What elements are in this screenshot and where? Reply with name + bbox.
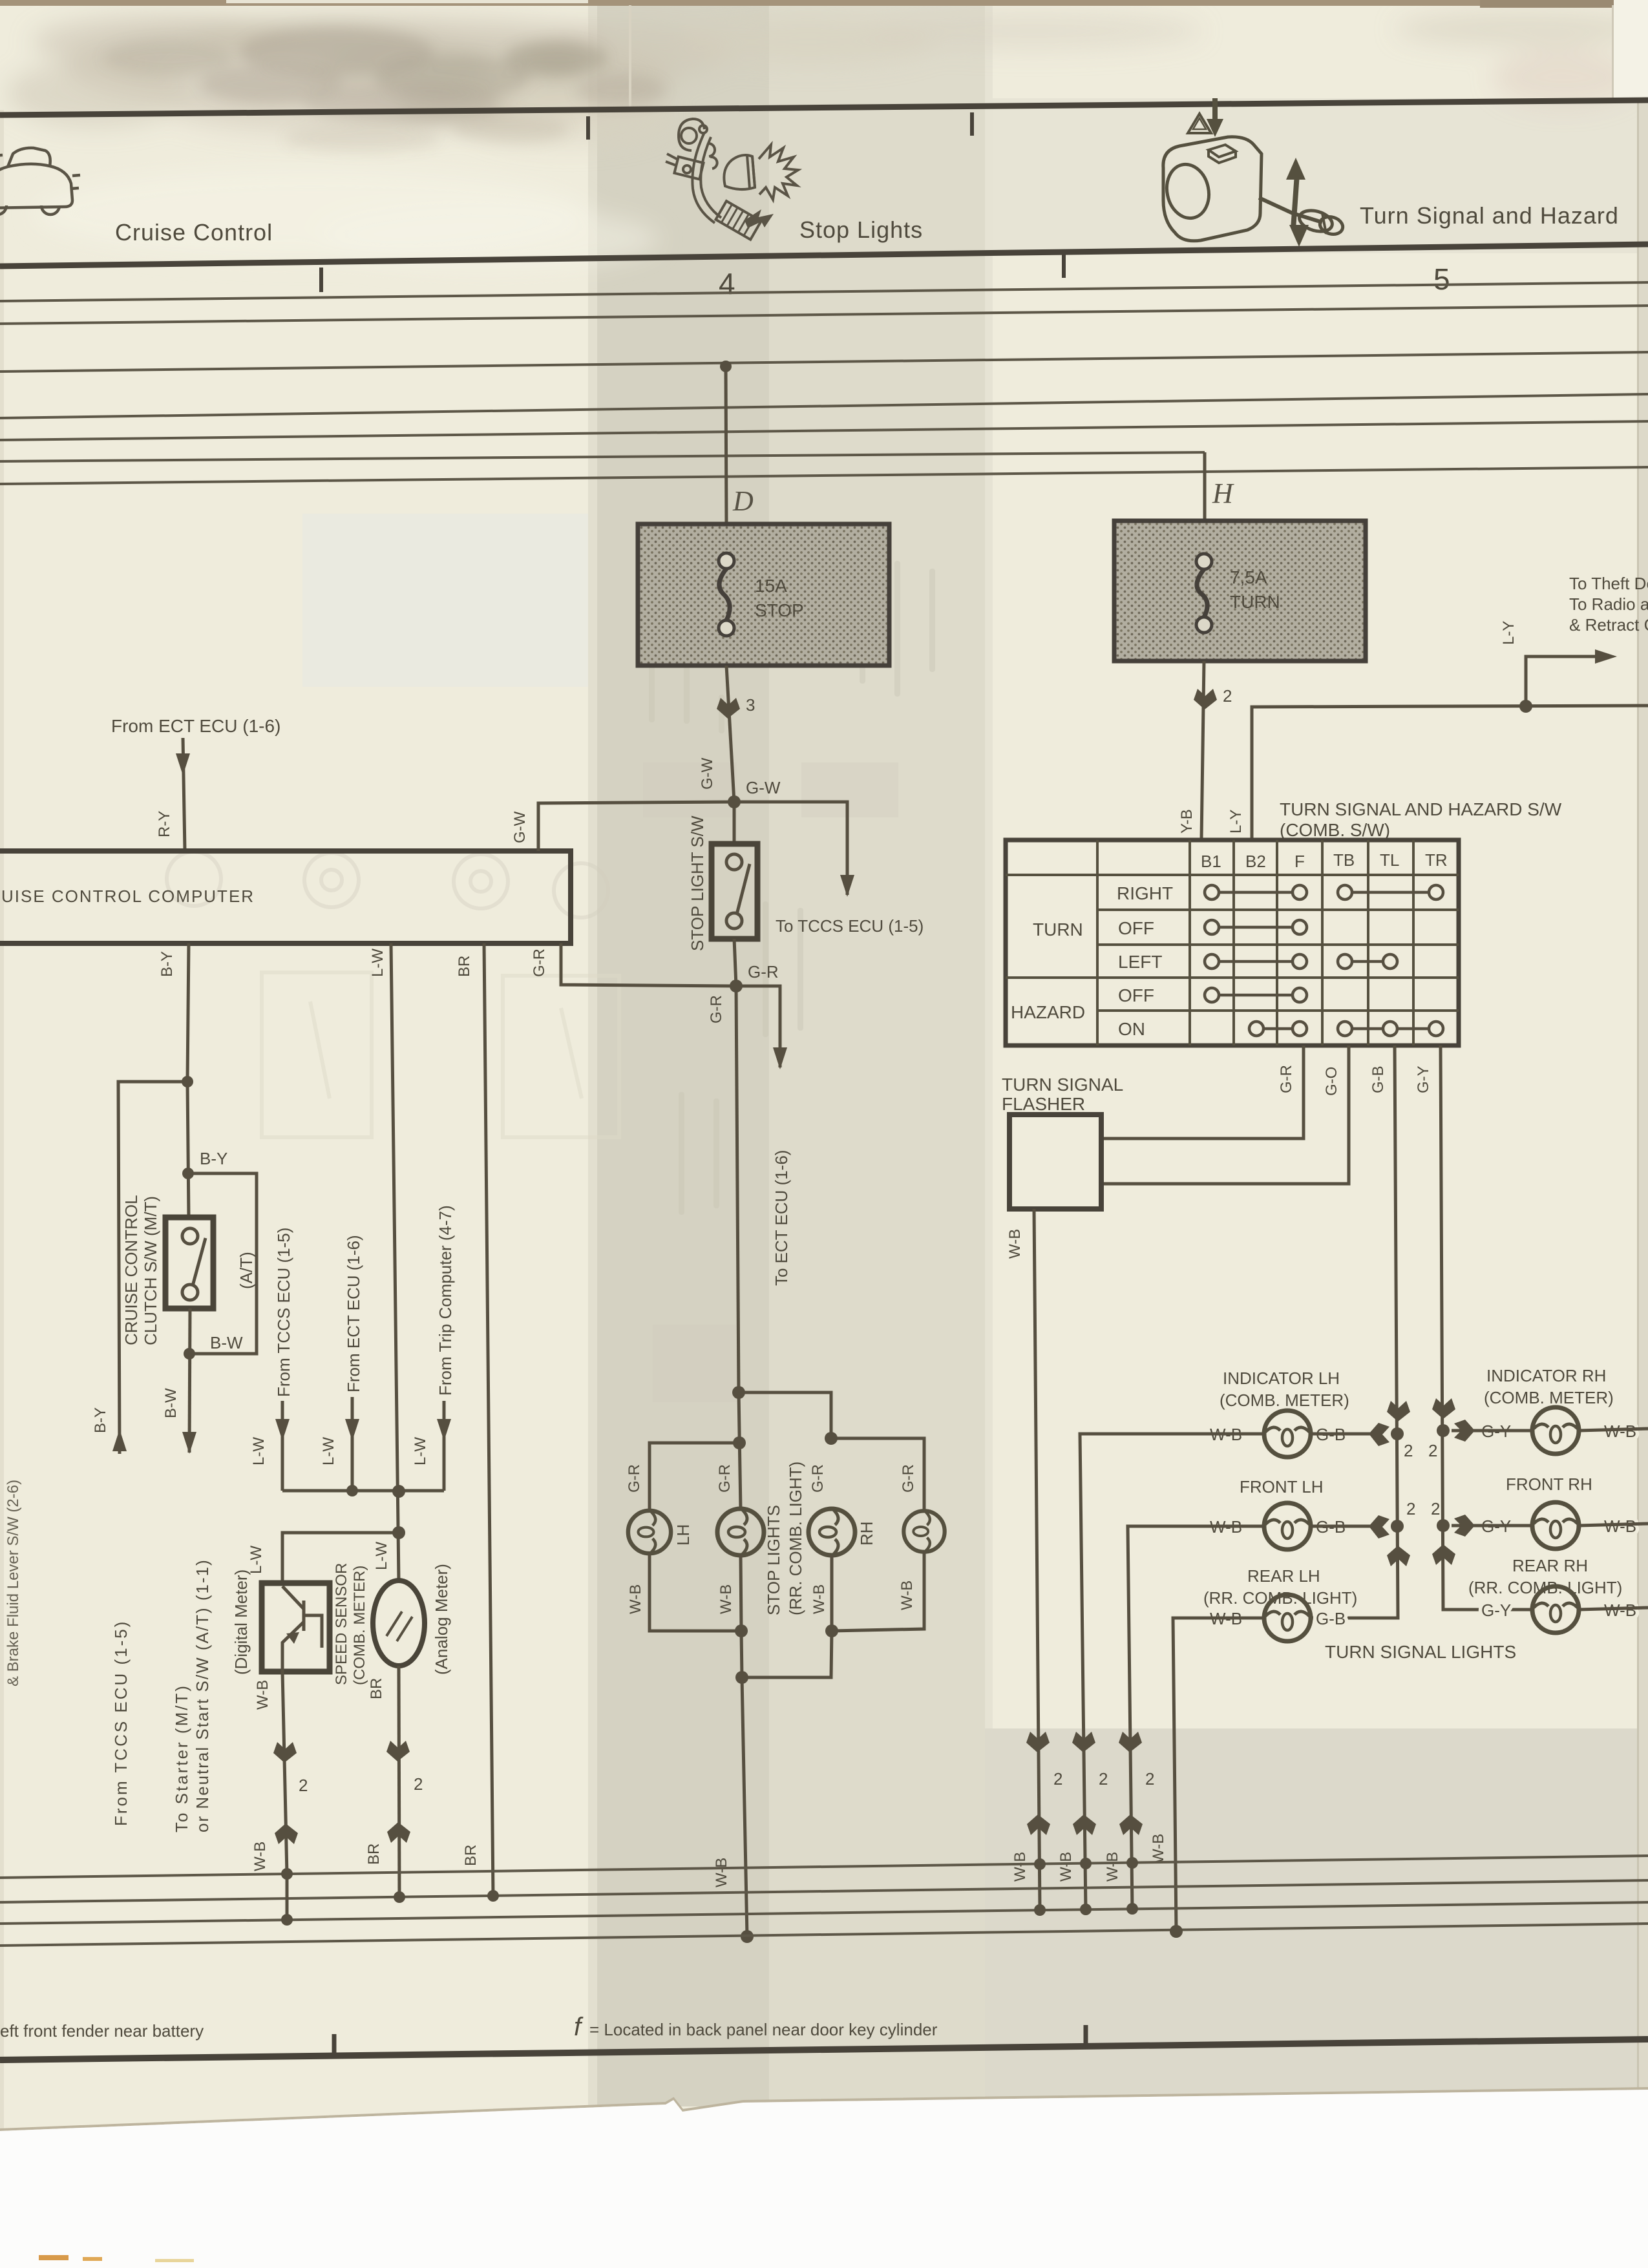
svg-text:G-R: G-R xyxy=(531,949,548,977)
arrow left indicator LH xyxy=(1369,1423,1389,1446)
svg-text:STOP: STOP xyxy=(755,600,804,620)
fuse 15A STOP box xyxy=(638,524,889,666)
svg-text:R-Y: R-Y xyxy=(156,811,173,837)
middle scan band light half xyxy=(769,0,985,2106)
svg-text:CLUTCH S/W (M/T): CLUTCH S/W (M/T) xyxy=(141,1196,160,1345)
node G-Y front xyxy=(1437,1519,1450,1532)
wire L-W feeder1 xyxy=(281,1401,284,1491)
svg-text:TURN SIGNAL LIGHTS: TURN SIGNAL LIGHTS xyxy=(1325,1642,1516,1662)
svg-text:B-W: B-W xyxy=(210,1333,243,1352)
wire L-W from computer down xyxy=(391,943,399,1581)
svg-text:RH: RH xyxy=(857,1521,876,1546)
clutch switch contact bottom xyxy=(182,1285,198,1300)
svg-text:eft front fender near battery: eft front fender near battery xyxy=(0,2021,204,2041)
ground bus W-B 1 xyxy=(0,1856,1648,1878)
svg-text:To Theft De: To Theft De xyxy=(1569,574,1648,593)
svg-text:B-Y: B-Y xyxy=(158,951,176,977)
svg-text:or Neutral Start S/W (A/T) (1-: or Neutral Start S/W (A/T) (1-1) xyxy=(193,1559,212,1832)
arrow down to ECT xyxy=(773,1047,787,1069)
svg-text:2: 2 xyxy=(299,1776,308,1795)
svg-text:2: 2 xyxy=(1053,1769,1062,1789)
svg-text:W-B: W-B xyxy=(1150,1834,1167,1864)
svg-text:G-B: G-B xyxy=(1316,1609,1346,1628)
tick below second line left xyxy=(319,268,323,292)
wire BR from computer down xyxy=(484,943,493,1896)
connector chevron 2 xyxy=(1194,689,1217,709)
combination switch table frame xyxy=(1006,840,1459,1045)
svg-text:FRONT RH: FRONT RH xyxy=(1506,1475,1592,1494)
svg-text:BR: BR xyxy=(462,1845,480,1866)
svg-text:(Analog Meter): (Analog Meter) xyxy=(432,1564,451,1675)
ghost block bleed in band xyxy=(643,762,898,1402)
wire L-W feeder3 xyxy=(443,1401,446,1491)
svg-text:4: 4 xyxy=(719,267,735,300)
svg-text:REAR RH: REAR RH xyxy=(1512,1556,1588,1575)
stop bulb LH xyxy=(628,1511,671,1553)
middle scan band dark half xyxy=(596,0,769,2106)
svg-text:L-W: L-W xyxy=(320,1437,337,1465)
connector chevrons W-B flasher wire xyxy=(1026,1732,1050,1835)
table horizontal dividers xyxy=(1006,875,1459,1011)
bottom ground buses and frame xyxy=(0,1856,1648,2268)
svg-text:2: 2 xyxy=(1099,1769,1108,1789)
analog meter slashes xyxy=(386,1612,412,1641)
wire B-Y from computer xyxy=(187,943,189,1082)
wire L-W to digital meter xyxy=(282,1533,399,1584)
svg-text:TURN: TURN xyxy=(1230,592,1280,612)
node bus to fuse D xyxy=(720,361,732,372)
node W-B indicator on bus1 xyxy=(1080,1858,1092,1869)
bottom frame line xyxy=(0,2039,1648,2060)
arrow right indicator RH xyxy=(1454,1420,1475,1442)
ground bus W-B 4 xyxy=(0,1924,1648,1946)
svg-text:7,5A: 7,5A xyxy=(1230,567,1267,587)
svg-text:FRONT LH: FRONT LH xyxy=(1240,1477,1324,1496)
wire indicator LH W-B xyxy=(1080,1434,1264,1911)
wire front RH to connector xyxy=(1452,1524,1532,1528)
rear LH bulb xyxy=(1264,1595,1311,1641)
fuse 7,5A TURN box xyxy=(1114,521,1366,661)
cruise control section xyxy=(0,716,736,1897)
wire to node E xyxy=(741,1631,742,1677)
cruise control computer box xyxy=(0,851,571,943)
wire switch to G-R node xyxy=(734,939,736,986)
wire L-W feeder2 xyxy=(351,1397,354,1491)
stop lights section xyxy=(626,361,945,1943)
wire bus to fuse H xyxy=(1203,452,1207,521)
svg-text:D: D xyxy=(732,485,754,517)
wire G-W computer to switch xyxy=(538,802,734,851)
svg-text:TL: TL xyxy=(1380,850,1399,870)
node W-B E xyxy=(735,1671,748,1684)
second frame line xyxy=(0,244,1648,266)
wire G-R main down to bulbs xyxy=(736,986,739,1392)
svg-text:HAZARD: HAZARD xyxy=(1011,1002,1085,1022)
top margin stains xyxy=(6,11,1648,145)
svg-text:INDICATOR LH: INDICATOR LH xyxy=(1223,1369,1340,1388)
bus line 7 xyxy=(0,467,1648,484)
bus line 3 (feeds fuse D) xyxy=(0,352,1648,372)
svg-text:& Retract C: & Retract C xyxy=(1569,615,1648,635)
bus line 5 xyxy=(0,421,1648,440)
wire indicator RH to connector xyxy=(1452,1429,1532,1433)
node G-B indicator xyxy=(1391,1427,1404,1440)
svg-text:UISE CONTROL COMPUTER: UISE CONTROL COMPUTER xyxy=(1,887,255,906)
analog meter oval xyxy=(373,1580,425,1666)
node B-Y at clutch switch xyxy=(182,1168,194,1179)
dark stain cores xyxy=(103,27,666,153)
svg-text:To Radio an: To Radio an xyxy=(1569,594,1648,614)
tick above bottom line right xyxy=(1084,2025,1088,2046)
svg-text:LEFT: LEFT xyxy=(1118,952,1162,972)
svg-text:G-B: G-B xyxy=(1369,1066,1387,1093)
svg-text:TURN SIGNAL: TURN SIGNAL xyxy=(1002,1075,1123,1095)
bus line 1 xyxy=(0,282,1648,301)
node L-W feeder2 join xyxy=(346,1485,358,1496)
node G-B front xyxy=(1391,1520,1404,1533)
node W-B digital on bus3 xyxy=(281,1914,293,1926)
svg-text:(Digital Meter): (Digital Meter) xyxy=(231,1570,251,1675)
arrow down on B-W xyxy=(182,1432,196,1454)
svg-text:= Located in back panel near d: = Located in back panel near door key cy… xyxy=(589,2020,938,2039)
svg-text:G-R: G-R xyxy=(1278,1065,1295,1093)
svg-text:G-R: G-R xyxy=(809,1464,827,1493)
wire G-R computer return xyxy=(561,943,736,986)
svg-text:(A/T): (A/T) xyxy=(237,1252,256,1289)
light burst xyxy=(759,145,798,200)
lever double arrow xyxy=(1286,158,1309,247)
arrow down feeder3 xyxy=(437,1419,451,1441)
svg-text:L-W: L-W xyxy=(412,1437,429,1465)
top right header tone xyxy=(985,98,1648,253)
fold crease top middle xyxy=(629,5,631,112)
arrow into switch top xyxy=(1207,98,1223,137)
contacts row LEFT xyxy=(1205,954,1397,969)
svg-text:RIGHT: RIGHT xyxy=(1117,883,1173,903)
stop switch contact top xyxy=(726,854,742,870)
fold crease top right xyxy=(1612,5,1614,102)
svg-text:5: 5 xyxy=(1433,262,1450,296)
contacts row OFF xyxy=(1205,920,1307,934)
svg-text:2: 2 xyxy=(1428,1441,1437,1460)
node W-B F xyxy=(825,1624,838,1637)
arrow down to TCCS xyxy=(840,875,854,897)
clutch switch contact top xyxy=(182,1228,198,1244)
wire B-Y into clutch switch xyxy=(187,1082,189,1217)
svg-text:BR: BR xyxy=(368,1678,385,1699)
svg-text:G-R: G-R xyxy=(748,962,779,982)
node G-R xyxy=(730,980,743,992)
svg-text:To TCCS ECU (1-5): To TCCS ECU (1-5) xyxy=(776,916,924,936)
bulb dome xyxy=(724,155,755,189)
arrow down on R-Y xyxy=(176,753,190,775)
L-W feeder 3 from Trip Computer xyxy=(412,1205,455,1491)
wire G-Y table down xyxy=(1441,1045,1532,1610)
svg-text:FLASHER: FLASHER xyxy=(1002,1094,1085,1114)
contacts row ON xyxy=(1249,1022,1443,1036)
node W-B front on bus3 xyxy=(1126,1903,1138,1915)
wire W-B digital bus link xyxy=(286,1874,289,1920)
wire W-B from flasher xyxy=(1034,1209,1040,1911)
contacts row OFF hazard xyxy=(1205,988,1307,1002)
node W-B indicator on bus3 xyxy=(1080,1904,1092,1915)
bright patches under header xyxy=(32,168,659,271)
pedal press arrow xyxy=(745,209,774,228)
svg-text:G-W: G-W xyxy=(746,778,781,797)
ground bus W-B 3 xyxy=(0,1902,1648,1924)
svg-text:W-B: W-B xyxy=(627,1584,644,1614)
wire L-Y to table xyxy=(1252,706,1648,840)
svg-text:OFF: OFF xyxy=(1118,918,1154,938)
front LH bulb xyxy=(1264,1503,1311,1549)
turn signal switch icon xyxy=(1162,137,1345,241)
svg-text:G-R: G-R xyxy=(626,1464,643,1493)
wire W-B main to ground bus xyxy=(742,1677,747,1937)
contacts row RIGHT xyxy=(1205,885,1443,899)
wire G-O table to flasher xyxy=(1103,1045,1349,1184)
svg-text:2: 2 xyxy=(1404,1441,1413,1460)
connector chevrons W-B front wire xyxy=(1119,1732,1143,1835)
node W-B flasher on bus1 xyxy=(1034,1858,1046,1870)
svg-text:(COMB. S/W): (COMB. S/W) xyxy=(1280,820,1390,840)
wire G-W into stop light switch xyxy=(733,802,736,845)
stop switch contact bottom xyxy=(726,913,742,929)
wire G-W branch to TCCS xyxy=(734,802,847,895)
tick divider cruise/stop xyxy=(586,116,590,140)
transistor symbol xyxy=(282,1586,322,1672)
svg-text:2: 2 xyxy=(414,1774,423,1794)
top edge brown strip xyxy=(0,0,1648,6)
svg-text:2: 2 xyxy=(1431,1499,1440,1518)
top power bus lines xyxy=(0,282,1648,484)
svg-text:TURN: TURN xyxy=(1033,919,1083,940)
wire bulb4 return xyxy=(832,1551,924,1631)
wire to bulb 1 xyxy=(650,1443,739,1511)
svg-text:(COMB. METER): (COMB. METER) xyxy=(1220,1391,1349,1410)
bus line 6 (feeds fuse H) xyxy=(0,452,1205,461)
svg-text:W-B: W-B xyxy=(1104,1852,1121,1882)
wire B-W to starter xyxy=(189,1308,190,1453)
svg-text:3: 3 xyxy=(746,695,755,715)
wire front LH to connector xyxy=(1311,1525,1370,1528)
svg-text:(COMB. METER): (COMB. METER) xyxy=(351,1566,368,1685)
node right pair C xyxy=(825,1432,838,1445)
node W-B rear on bus4 xyxy=(1170,1925,1183,1938)
svg-text:B-Y: B-Y xyxy=(200,1149,227,1168)
connector chevrons W-B indicator wire xyxy=(1072,1732,1096,1835)
svg-text:G-R: G-R xyxy=(708,995,725,1024)
stop bulb RH xyxy=(808,1509,855,1555)
svg-text:TB: TB xyxy=(1333,850,1355,870)
transistor emitter arrow xyxy=(286,1632,299,1644)
wire rear RH W-B xyxy=(1579,1608,1648,1610)
svg-text:TURN SIGNAL AND HAZARD S/W: TURN SIGNAL AND HAZARD S/W xyxy=(1280,799,1562,819)
node B-Y branch xyxy=(182,1076,193,1087)
tick divider stop/turn xyxy=(970,112,974,136)
svg-text:B2: B2 xyxy=(1245,852,1266,871)
node L-W main join xyxy=(392,1485,405,1498)
svg-text:2: 2 xyxy=(1223,686,1232,706)
svg-text:W-B: W-B xyxy=(898,1580,916,1610)
svg-text:W-B: W-B xyxy=(810,1584,828,1614)
stop bulb 4 xyxy=(903,1511,944,1551)
stop light switch box xyxy=(712,844,757,939)
connector chevrons BR xyxy=(386,1741,410,1843)
svg-text:W-B: W-B xyxy=(1057,1852,1075,1882)
connector chevron 3 xyxy=(717,698,740,719)
arrow up on left B-Y leg xyxy=(112,1429,127,1451)
svg-text:From Trip Computer (4-7): From Trip Computer (4-7) xyxy=(436,1205,455,1396)
node BR computer on bus2 xyxy=(487,1890,499,1902)
wire bus to fuse D xyxy=(726,366,726,525)
wire G-R branch to ECT xyxy=(736,986,780,1067)
svg-text:L-W: L-W xyxy=(250,1437,268,1465)
node G-W xyxy=(728,795,741,808)
fuse element TURN xyxy=(1196,554,1212,633)
svg-text:L-W: L-W xyxy=(373,1542,390,1570)
clutch switch blade xyxy=(193,1238,206,1286)
wire front LH W-B xyxy=(1128,1526,1264,1911)
svg-text:ON: ON xyxy=(1118,1019,1145,1039)
wire indicator RH W-B xyxy=(1579,1429,1648,1431)
wire fuse H output Y-B xyxy=(1201,661,1204,840)
node L-W speed sensor tee xyxy=(392,1526,405,1539)
wire A/T bypass xyxy=(188,1173,257,1354)
speed sensor transistor box (digital meter) xyxy=(262,1583,330,1672)
node W-B flasher on bus3 xyxy=(1034,1904,1046,1916)
wire bulb1 return xyxy=(650,1553,741,1631)
connector chevrons G-Y vertical xyxy=(1432,1398,1455,1565)
svg-text:W-B: W-B xyxy=(1011,1852,1029,1882)
arrow right front RH xyxy=(1454,1515,1475,1537)
ghost bulbs bleed-through inside computer xyxy=(167,852,608,918)
node left pair B xyxy=(733,1436,746,1449)
ghost switch bleed below computer xyxy=(262,972,619,1137)
table column headers xyxy=(1201,850,1448,871)
svg-text:STOP LIGHTS: STOP LIGHTS xyxy=(764,1505,783,1615)
svg-text:H: H xyxy=(1212,478,1234,509)
stop bulb 2 xyxy=(717,1509,764,1555)
svg-text:To Starter (M/T): To Starter (M/T) xyxy=(172,1684,191,1832)
L-W feeder 2 from ECT xyxy=(320,1235,363,1491)
left page edge shade xyxy=(0,110,4,2132)
svg-text:(COMB. METER): (COMB. METER) xyxy=(1484,1388,1614,1407)
svg-text:To ECT ECU (1-6): To ECT ECU (1-6) xyxy=(772,1150,791,1286)
node G-Y indicator xyxy=(1437,1424,1450,1437)
svg-text:INDICATOR RH: INDICATOR RH xyxy=(1486,1366,1606,1385)
top frame line xyxy=(0,100,1648,115)
svg-text:G-Y: G-Y xyxy=(1415,1066,1432,1093)
svg-text:From TCCS ECU (1-5): From TCCS ECU (1-5) xyxy=(111,1620,131,1826)
arrow left front LH xyxy=(1369,1515,1389,1538)
svg-text:G-W: G-W xyxy=(511,811,529,843)
svg-text:L-Y: L-Y xyxy=(1227,810,1245,834)
svg-text:W-B: W-B xyxy=(717,1584,735,1614)
bleed-through blue-grey patch xyxy=(302,514,781,687)
svg-text:(RR. COMB. LIGHT): (RR. COMB. LIGHT) xyxy=(786,1462,805,1615)
connector chevrons G-B vertical xyxy=(1387,1401,1410,1566)
wire BR from analog meter xyxy=(399,1666,399,1897)
wire B-Y to TCCS (left leg) xyxy=(118,1082,187,1454)
bottom left orange marks xyxy=(39,2255,69,2260)
svg-text:From ECT ECU (1-6): From ECT ECU (1-6) xyxy=(344,1235,363,1392)
svg-text:W-B: W-B xyxy=(1006,1229,1024,1259)
wire G-B table down xyxy=(1311,1045,1398,1618)
svg-text:Stop Lights: Stop Lights xyxy=(799,216,923,243)
table vertical dividers xyxy=(1097,840,1413,1045)
svg-text:2: 2 xyxy=(1145,1769,1154,1789)
wire G-R table to flasher xyxy=(1103,1045,1304,1139)
cruise control clutch switch box xyxy=(165,1217,213,1308)
ghost text bleed bars in band xyxy=(649,554,935,1215)
wire bulb3 return xyxy=(830,1555,834,1631)
node W-B digital on bus1 xyxy=(281,1868,293,1880)
white surface below page xyxy=(0,2090,1648,2268)
node L-Y theft branch xyxy=(1519,700,1532,713)
svg-text:G-W: G-W xyxy=(699,757,716,790)
svg-text:STOP LIGHT S/W: STOP LIGHT S/W xyxy=(688,815,707,951)
paper bottom edge shadow xyxy=(0,2088,1648,2130)
svg-text:CRUISE CONTROL: CRUISE CONTROL xyxy=(121,1195,141,1345)
svg-text:From ECT ECU (1-6): From ECT ECU (1-6) xyxy=(111,716,280,736)
svg-text:From TCCS ECU (1-5): From TCCS ECU (1-5) xyxy=(274,1228,293,1397)
wire fuse D output xyxy=(726,666,734,802)
svg-text:2: 2 xyxy=(1406,1499,1415,1518)
connector chevrons W-B xyxy=(273,1742,298,1844)
wire front RH W-B xyxy=(1579,1524,1648,1526)
svg-text:B1: B1 xyxy=(1201,852,1221,871)
wire main to bulb 2 xyxy=(739,1392,741,1509)
turn signal flasher box xyxy=(1009,1115,1101,1209)
wire to theft deterrent xyxy=(1526,656,1601,706)
svg-text:W-B: W-B xyxy=(713,1858,730,1887)
turn signal and hazard section xyxy=(1002,452,1648,1931)
rear RH bulb xyxy=(1532,1586,1579,1633)
node on ground bus 4 xyxy=(741,1930,754,1943)
arrow down feeder2 xyxy=(345,1419,359,1441)
node BR analog on bus2 xyxy=(394,1891,405,1903)
wire R-Y into computer xyxy=(183,738,185,851)
svg-text:B-W: B-W xyxy=(162,1388,180,1418)
svg-text:SPEED SENSOR: SPEED SENSOR xyxy=(333,1563,350,1685)
bottom right grey region xyxy=(985,1728,1648,2097)
car icon (cruise control) xyxy=(0,148,80,215)
front RH bulb xyxy=(1532,1502,1579,1549)
indicator RH bulb xyxy=(1532,1407,1579,1454)
svg-text:Cruise Control: Cruise Control xyxy=(115,219,273,246)
svg-text:W-B: W-B xyxy=(251,1842,269,1871)
wire F to E xyxy=(742,1631,832,1677)
svg-text:F: F xyxy=(1294,852,1305,871)
wire L-W collector horizontal xyxy=(282,1489,444,1493)
node bulb feed A xyxy=(732,1386,745,1399)
svg-text:L-W: L-W xyxy=(369,949,386,977)
bus line 2 xyxy=(0,306,1648,324)
svg-text:B-Y: B-Y xyxy=(92,1407,109,1433)
node W-B front on bus1 xyxy=(1126,1857,1138,1869)
wire to bulb 4 xyxy=(831,1438,924,1511)
svg-text:15A: 15A xyxy=(755,576,787,596)
svg-text:Y-B: Y-B xyxy=(1178,809,1196,834)
hazard triangle glyph xyxy=(1188,114,1211,133)
wire bulb2 return xyxy=(741,1555,741,1631)
node B-W xyxy=(184,1348,195,1360)
band soft edges xyxy=(588,0,597,2106)
tick above bottom line left xyxy=(332,2034,337,2055)
svg-text:G-O: G-O xyxy=(1323,1067,1340,1096)
fuse element STOP xyxy=(719,553,734,636)
bus line 4 xyxy=(0,394,1648,418)
